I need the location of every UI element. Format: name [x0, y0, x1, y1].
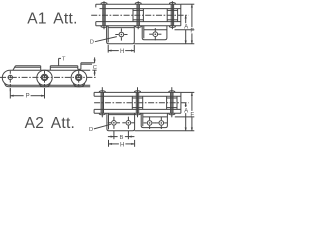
- A1 chain near inner plate edge: [96, 21, 181, 23]
- side view chain centerline: [0, 76, 97, 78]
- A1 attachment tab far hole 1: [149, 28, 161, 40]
- A2 chain left end lower cut: [93, 109, 95, 113]
- A2 chain pin head top 1: [99, 91, 105, 93]
- A1 chain pin axis 3: [171, 1, 173, 29]
- svg-text:T: T: [62, 57, 66, 63]
- svg-text:F: F: [190, 112, 194, 119]
- svg-text:A: A: [184, 107, 189, 114]
- A2 chain pin head bottom 2: [135, 113, 141, 115]
- dimension P of side view: [10, 88, 44, 100]
- A2 chain far outer plate edge: [94, 91, 181, 93]
- A1 attachment tab near top bend line: [108, 27, 134, 29]
- A1 attachment tab far left bend line: [143, 26, 145, 39]
- A2 attachment tab near outline: [107, 113, 135, 131]
- A2 attachment tab far hole 1: [144, 117, 156, 129]
- A2 chain right plate end: [180, 92, 182, 113]
- A2 chain roller 3: [167, 96, 177, 109]
- A1 chain far outer plate edge: [96, 3, 181, 5]
- A2 attachment tab far outline: [141, 113, 167, 127]
- A1 chain far inner plate edge: [100, 8, 181, 10]
- side view third link far bottom edge: [73, 83, 90, 87]
- A1 chain pin axis 2: [137, 1, 139, 29]
- A1 bottom extension line: [134, 43, 194, 45]
- A2 chain pin head top 2: [135, 91, 141, 93]
- side view link2 near contour: [37, 70, 87, 85]
- A1 top extension line: [181, 3, 195, 5]
- svg-text:H: H: [120, 141, 124, 148]
- A1 chain pin shank 1: [103, 4, 105, 26]
- A1 chain left end lower cut: [95, 22, 97, 26]
- A1 attachment tab far top bend line: [144, 29, 167, 31]
- label D of A1: [90, 37, 117, 46]
- svg-text:A1 Att.: A1 Att.: [27, 11, 78, 28]
- A1 attachment tab near outline: [107, 26, 135, 44]
- A1 bend extension line: [175, 29, 195, 31]
- svg-text:F: F: [190, 28, 194, 35]
- side view pin 1: [8, 71, 12, 91]
- A2 bottom extension line: [135, 130, 195, 132]
- A2 chain pin shank 3: [171, 92, 173, 113]
- A1 chain pin head top 1: [101, 3, 107, 5]
- dimension T of side view: [59, 57, 66, 66]
- A1 chain pin shank 2: [137, 4, 139, 26]
- dimension H of A2: [109, 140, 135, 149]
- A2 chain pin axis 3: [171, 87, 173, 117]
- A2 chain pin axis 2: [137, 87, 139, 117]
- A2 chain near outer plate edge: [94, 112, 181, 114]
- svg-text:A2 Att.: A2 Att.: [25, 115, 76, 132]
- A2 chain roller 2: [132, 96, 142, 109]
- dimension H of A1: [108, 45, 134, 55]
- dimension A of A2: [184, 103, 189, 131]
- title A2 Att.: [25, 115, 76, 132]
- svg-text:B: B: [120, 135, 124, 141]
- A2 chain far inner plate edge: [94, 95, 181, 97]
- svg-text:P: P: [26, 94, 30, 100]
- A2 chain pin shank 2: [136, 92, 138, 113]
- side view tab strip 3: [81, 63, 95, 70]
- A1 chain roller 2: [133, 9, 143, 22]
- side view link1 far bottom edge: [5, 83, 51, 87]
- A1 chain pin shank 3: [171, 4, 173, 26]
- side view pin 2: [41, 71, 47, 91]
- A2 attachment tab far top bend line: [143, 116, 168, 118]
- A1 attachment tab far outline: [142, 26, 167, 40]
- A1 chain roller 3: [167, 9, 177, 22]
- dimension F of A1: [190, 4, 194, 44]
- A1 chain pin head bottom 2: [135, 26, 141, 28]
- label D of A2: [89, 124, 111, 133]
- A2 chain pin head bottom 3: [169, 113, 175, 115]
- A1 chain pin head bottom 3: [170, 26, 176, 28]
- side view link2 far bottom edge: [39, 83, 85, 87]
- A2 attachment tab near left bend line: [108, 113, 110, 129]
- A2 bend extension line: [175, 116, 195, 118]
- A1 attachment tab near hole 1: [115, 28, 127, 40]
- A1 chain pin head top 3: [170, 3, 176, 5]
- svg-text:H: H: [120, 48, 124, 55]
- A1 attachment tab near left bend line: [107, 26, 109, 43]
- A1 chain left end upper cut: [95, 4, 97, 7]
- A1 chain pin head top 2: [135, 3, 141, 5]
- A2 chain left end upper cut: [93, 92, 95, 96]
- A2 chain near inner plate edge: [94, 108, 181, 110]
- side view link1 near contour: [2, 70, 52, 85]
- side view tab strip 1: [13, 66, 41, 70]
- A1 chain near outer plate edge: [96, 25, 181, 27]
- A2 top extension line: [181, 91, 194, 93]
- A2 attachment tab far hole 2: [155, 117, 167, 129]
- A2 chain pin head bottom 1: [99, 113, 105, 115]
- A2 attachment tab far left bend line: [142, 113, 144, 126]
- dimension A of A1: [184, 15, 189, 44]
- A2 chain chain centerline: [94, 102, 189, 104]
- A2 chain pin head top 3: [169, 91, 175, 93]
- side view third link near contour: [71, 70, 90, 85]
- A1 chain chain centerline: [91, 14, 188, 16]
- svg-text:D: D: [89, 127, 93, 133]
- A2 chain pin axis 1: [101, 87, 103, 117]
- title A1 Att.: [27, 11, 78, 28]
- A1 chain pin axis 1: [103, 1, 105, 29]
- A2 attachment tab near top bend line: [109, 114, 135, 116]
- svg-text:D: D: [90, 39, 94, 45]
- A2 attachment tab near hole 2: [122, 117, 134, 129]
- A2 attachment tab near hole 1: [108, 117, 120, 129]
- side view tab strip 2: [50, 66, 81, 70]
- dimension C of side view: [92, 57, 97, 75]
- dimension F of A2: [190, 92, 194, 130]
- A1 chain right plate end: [180, 4, 182, 26]
- A2 chain pin shank 1: [101, 92, 103, 113]
- side view pin 3: [76, 71, 82, 87]
- A1 chain pin head bottom 1: [101, 26, 107, 28]
- dimension B of A2: [108, 131, 134, 141]
